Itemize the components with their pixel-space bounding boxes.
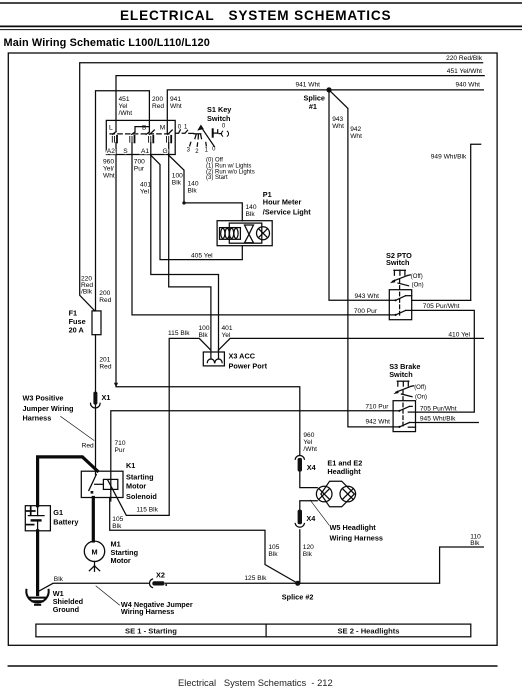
wire 401 Yel	[140, 143, 233, 360]
svg-text:G1: G1	[53, 508, 63, 517]
svg-text:941 Wht: 941 Wht	[295, 82, 320, 89]
svg-text:Blk: Blk	[172, 180, 182, 187]
battery negative cable	[36, 531, 39, 595]
svg-text:940 Wht: 940 Wht	[455, 82, 480, 89]
svg-text:Blk: Blk	[199, 332, 209, 339]
wire 705 Pur/Wht	[412, 303, 475, 412]
svg-text:451 Yel/Wht: 451 Yel/Wht	[447, 68, 482, 75]
svg-text:Starting: Starting	[126, 472, 154, 481]
svg-text:(3) Start: (3) Start	[206, 175, 228, 181]
svg-text:949 Wht/Blk: 949 Wht/Blk	[431, 153, 467, 160]
svg-text:Wht: Wht	[332, 123, 344, 130]
wire 405 Yel	[151, 155, 243, 259]
wire 410 Yel	[218, 331, 483, 350]
svg-text:Wiring Harness: Wiring Harness	[330, 533, 383, 542]
key switch connector pins (combs and blades)	[112, 127, 172, 143]
X2 connector	[150, 571, 168, 588]
svg-text:G: G	[163, 148, 168, 155]
svg-text:Wht: Wht	[350, 133, 362, 140]
svg-text:/Service Light: /Service Light	[263, 208, 311, 217]
svg-text:/Wht: /Wht	[303, 446, 317, 453]
svg-text:M: M	[160, 124, 166, 131]
wire 700 Pur	[132, 143, 389, 315]
wire 105 Blk	[110, 498, 298, 584]
svg-text:Red: Red	[99, 364, 111, 371]
svg-text:Battery: Battery	[53, 518, 79, 527]
svg-text:Hour Meter: Hour Meter	[263, 198, 302, 207]
svg-text:705 Pur/Wht: 705 Pur/Wht	[423, 303, 460, 310]
svg-text:Pur: Pur	[115, 447, 126, 454]
svg-text:Main Wiring Schematic L100/L11: Main Wiring Schematic L100/L110/L120	[4, 37, 210, 49]
svg-text:Wht: Wht	[170, 103, 182, 110]
svg-text:20 A: 20 A	[69, 326, 85, 335]
X4 connector upper	[295, 455, 316, 471]
svg-text:(Off): (Off)	[411, 274, 423, 280]
svg-text:(On): (On)	[412, 283, 424, 289]
wire 941 Wht	[167, 82, 329, 134]
svg-text:960: 960	[303, 432, 314, 439]
svg-text:Blk: Blk	[470, 540, 480, 547]
svg-text:Yel: Yel	[140, 189, 149, 196]
svg-text:Blk: Blk	[246, 211, 256, 218]
svg-text:Splice #2: Splice #2	[282, 593, 314, 602]
svg-text:Yel/: Yel/	[103, 166, 114, 173]
svg-text:Switch: Switch	[207, 114, 231, 123]
svg-text:Solenoid: Solenoid	[126, 492, 157, 501]
wire 451 Yel/Wht	[116, 68, 484, 132]
wire 140 Blk	[169, 155, 257, 221]
svg-text:A1: A1	[141, 148, 149, 155]
svg-text:Yel: Yel	[119, 103, 128, 110]
svg-text:K1: K1	[126, 461, 135, 470]
wire 960 Yel/Wht	[103, 143, 317, 455]
wire 949 Wht/Blk	[412, 144, 481, 300]
svg-text:W5 Headlight: W5 Headlight	[330, 523, 377, 532]
svg-text:Pur: Pur	[134, 166, 145, 173]
svg-text:Blk: Blk	[303, 551, 313, 558]
svg-text:125 Blk: 125 Blk	[244, 575, 267, 582]
S1 key switch	[175, 105, 232, 155]
svg-text:S: S	[123, 148, 128, 155]
svg-text:ELECTRICAL SYSTEM SCHEMATICS: ELECTRICAL SYSTEM SCHEMATICS	[120, 8, 391, 23]
wire 200 Red	[96, 91, 165, 311]
svg-text:X4: X4	[306, 514, 316, 523]
splice #1 junction	[304, 87, 332, 111]
svg-text:Blk: Blk	[112, 523, 122, 530]
svg-text:Blk: Blk	[188, 188, 198, 195]
svg-text:943: 943	[332, 116, 343, 123]
svg-text:710: 710	[115, 440, 126, 447]
svg-text:Headlight: Headlight	[327, 467, 361, 476]
svg-text:945 Wht/Blk: 945 Wht/Blk	[420, 415, 456, 422]
svg-text:Ground: Ground	[53, 605, 79, 614]
svg-text:Power Port: Power Port	[229, 362, 268, 371]
svg-text:705 Pur/Wht: 705 Pur/Wht	[420, 405, 457, 412]
wire 220 Red/Blk	[80, 55, 483, 311]
svg-text:120: 120	[303, 544, 314, 551]
svg-text:L: L	[109, 124, 113, 131]
wire 201 Red fuse to X1 to K1	[82, 335, 112, 475]
headlight feed wire X4 to lamp	[300, 472, 317, 510]
wire 940 Wht	[329, 82, 483, 90]
W5 harness label	[310, 500, 383, 542]
splice #2 junction	[282, 581, 314, 602]
svg-text:B: B	[142, 124, 147, 131]
svg-text:401: 401	[222, 325, 233, 332]
svg-text:(Off): (Off)	[414, 385, 426, 391]
page top rule	[0, 2, 522, 4]
W1 shielded ground	[26, 589, 83, 614]
ground bus wire Blk / 125 Blk	[40, 575, 298, 591]
svg-text:Motor: Motor	[111, 556, 131, 565]
S2 PTO switch	[386, 251, 424, 320]
svg-text:#1: #1	[309, 102, 317, 111]
svg-text:Wiring Harness: Wiring Harness	[121, 607, 174, 616]
svg-text:Switch: Switch	[386, 258, 410, 267]
svg-text:105: 105	[112, 516, 123, 523]
svg-text:410 Yel: 410 Yel	[448, 331, 470, 338]
page footer	[8, 666, 497, 688]
svg-text:M: M	[91, 548, 97, 557]
svg-text:960: 960	[103, 159, 114, 166]
svg-text:100: 100	[172, 173, 183, 180]
wire 945 Wht/Blk	[416, 415, 479, 422]
K1 starting motor solenoid	[81, 461, 157, 501]
svg-text:Red: Red	[82, 443, 94, 450]
wire 120 Blk	[300, 530, 314, 584]
svg-text:Yel: Yel	[303, 439, 312, 446]
svg-text:/Blk: /Blk	[81, 289, 93, 296]
title double rule	[0, 25, 522, 27]
wire 100 Blk	[169, 143, 211, 360]
svg-text:Red: Red	[99, 297, 111, 304]
svg-text:401: 401	[140, 182, 151, 189]
svg-text:X3 ACC: X3 ACC	[229, 352, 256, 361]
svg-text:Switch: Switch	[389, 370, 413, 379]
svg-text:X1: X1	[102, 393, 111, 402]
key switch connector block	[106, 120, 175, 155]
svg-text:Electrical System Schematics: Electrical System Schematics - 212	[178, 677, 333, 688]
W3 harness label	[23, 393, 95, 440]
svg-text:Blk: Blk	[268, 551, 278, 558]
svg-text:X4: X4	[307, 463, 317, 472]
svg-text:451: 451	[119, 96, 130, 103]
svg-text:SE 2 - Headlights: SE 2 - Headlights	[337, 627, 399, 636]
svg-text:941: 941	[170, 96, 181, 103]
svg-text:220 Red/Blk: 220 Red/Blk	[446, 55, 483, 62]
svg-text:Blk: Blk	[54, 576, 64, 583]
wire 710 Pur	[111, 403, 393, 501]
svg-text:700: 700	[134, 159, 145, 166]
svg-text:140: 140	[188, 181, 199, 188]
svg-text:115 Blk: 115 Blk	[136, 507, 158, 514]
svg-text:Red: Red	[152, 103, 164, 110]
SE section bars	[36, 624, 471, 637]
svg-text:201: 201	[99, 357, 110, 364]
svg-text:700 Pur: 700 Pur	[354, 308, 378, 315]
svg-text:SE 1 - Starting: SE 1 - Starting	[125, 627, 177, 636]
wire 110 Blk	[298, 533, 484, 583]
F1 fuse	[69, 309, 101, 335]
svg-text:942: 942	[350, 126, 361, 133]
svg-text:943 Wht: 943 Wht	[354, 293, 379, 300]
X3 ACC power port	[203, 352, 267, 371]
svg-text:Motor: Motor	[126, 482, 146, 491]
svg-text:Harness: Harness	[23, 413, 52, 422]
svg-text:140: 140	[246, 204, 257, 211]
svg-text:405 Yel: 405 Yel	[191, 252, 213, 259]
svg-text:Yel: Yel	[222, 332, 231, 339]
P1 hour meter / service light	[217, 190, 311, 246]
S3 brake switch	[389, 362, 427, 432]
E1 and E2 headlights	[316, 458, 362, 507]
wire 943 Wht	[329, 90, 389, 300]
X4 connector lower	[295, 510, 316, 528]
svg-text:200: 200	[99, 290, 110, 297]
svg-text:/Wht: /Wht	[119, 110, 133, 117]
svg-text:W3 Positive: W3 Positive	[23, 393, 64, 402]
svg-text:X2: X2	[156, 571, 165, 580]
S1 position legend	[206, 158, 255, 181]
wire 942 Wht	[329, 90, 393, 427]
svg-text:942 Wht: 942 Wht	[365, 419, 390, 426]
svg-text:200: 200	[152, 96, 163, 103]
svg-text:100: 100	[199, 325, 210, 332]
svg-text:105: 105	[268, 544, 279, 551]
G1 battery	[25, 506, 79, 531]
W4 harness label	[96, 586, 193, 616]
svg-text:115 Blk: 115 Blk	[168, 330, 190, 337]
svg-text:Wht: Wht	[103, 173, 115, 180]
svg-text:710 Pur: 710 Pur	[365, 403, 389, 410]
svg-text:(On): (On)	[415, 395, 427, 401]
M1 starting motor	[84, 540, 138, 572]
X1 connector	[91, 392, 111, 408]
wire 115 Blk	[108, 330, 211, 515]
svg-text:A2: A2	[107, 148, 115, 155]
svg-text:S1 Key: S1 Key	[207, 105, 232, 114]
starter cable K1 to M1	[92, 498, 95, 542]
battery positive cable	[38, 457, 98, 506]
svg-text:Jumper Wiring: Jumper Wiring	[23, 404, 74, 413]
